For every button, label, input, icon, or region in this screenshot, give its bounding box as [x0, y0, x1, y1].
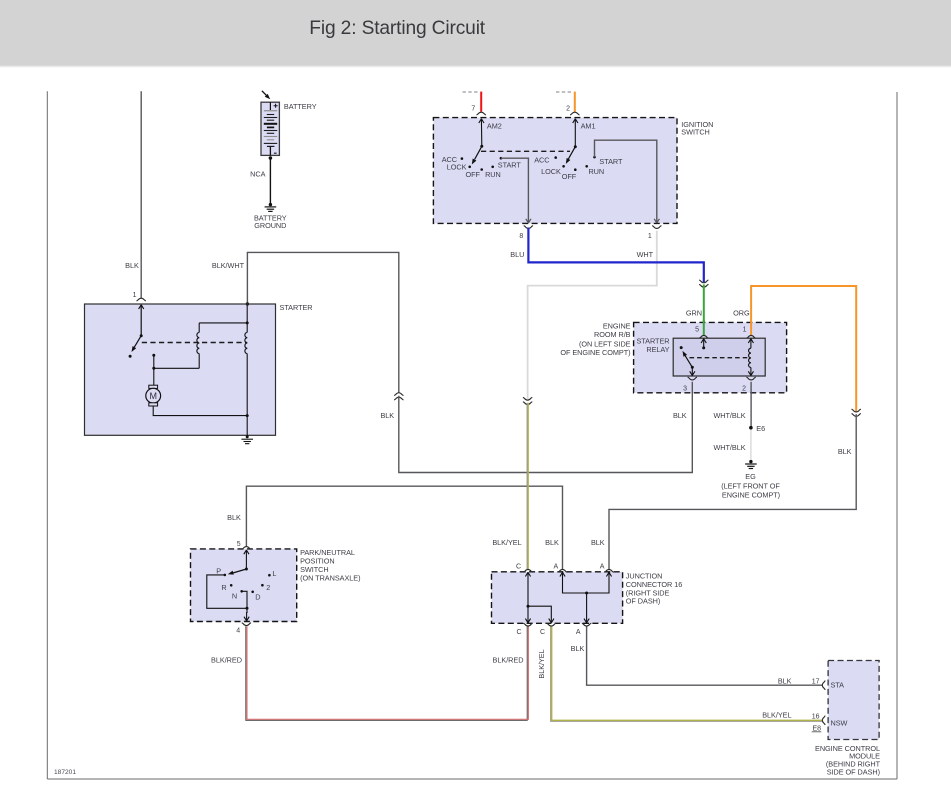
wire WHT/BLK E6 to EG ground — [750, 430, 752, 460]
svg-text:BLK/YEL: BLK/YEL — [492, 538, 521, 547]
relay fixed contact node — [680, 346, 683, 349]
node relay common — [691, 366, 694, 369]
node: starter case entry — [246, 302, 249, 305]
connector ignition pin 2 — [570, 112, 579, 115]
junction connector 16 box — [492, 572, 623, 624]
wire BLK relay pin3 to starter feed — [399, 382, 693, 473]
svg-text:2: 2 — [566, 106, 570, 113]
ECM box — [828, 661, 879, 740]
svg-text:1: 1 — [648, 233, 652, 240]
wire GRN lower segment into relay — [703, 320, 705, 335]
AM2 position contacts — [461, 157, 503, 171]
relay pin 5 terminal arrow — [701, 339, 706, 348]
svg-text:STARTER: STARTER — [280, 303, 313, 312]
svg-text:17: 17 — [812, 678, 820, 685]
svg-text:2: 2 — [266, 583, 270, 592]
svg-text:2: 2 — [742, 386, 746, 393]
connector ignition pin 8 — [524, 226, 533, 229]
relay mechanical link (dashed) — [690, 357, 750, 359]
relay pin 3 terminal arrow — [690, 367, 695, 375]
svg-text:LOCK: LOCK — [541, 167, 561, 176]
junction internal A bus — [560, 572, 612, 623]
connector junction bottom C1 — [523, 623, 532, 626]
svg-text:L: L — [272, 569, 276, 578]
EG ground — [745, 460, 757, 469]
wire motor to ground bus — [153, 406, 247, 416]
starter switch feed with arrow — [139, 305, 144, 336]
wire BLK/WHT (starter to inline connector) — [247, 252, 398, 392]
ECM label — [815, 744, 881, 777]
svg-text:BLK: BLK — [545, 538, 559, 547]
battery ground — [265, 203, 277, 211]
wire BLK right side down to junction connector — [609, 414, 856, 569]
svg-text:GRN: GRN — [686, 308, 702, 317]
starter switch contact node — [129, 355, 132, 358]
wire WHT/BLK relay pin 2 to E6 — [750, 382, 752, 427]
PNP switch blade to P — [227, 569, 246, 576]
engine room R/B label — [560, 321, 630, 357]
motor M — [146, 385, 161, 406]
svg-text:C: C — [516, 629, 521, 636]
starter hold-in coil on right vertical — [245, 304, 247, 436]
relay coil with terminal arrows — [748, 339, 753, 376]
svg-text:ROOM R/B: ROOM R/B — [594, 330, 631, 339]
wire NCA battery to ground — [269, 158, 271, 203]
AM1 contact arm with arrow — [573, 119, 578, 147]
AM2 contact arm with arrow — [479, 119, 484, 147]
starter ground — [241, 435, 253, 443]
inline connector ORG-BLK — [852, 409, 861, 416]
AM2 START wire to pin 8 — [501, 158, 531, 223]
AM1 START wire to pin 1 — [595, 140, 660, 223]
node junction C — [527, 605, 530, 608]
svg-text:START: START — [599, 157, 623, 166]
svg-text:ACC: ACC — [534, 156, 549, 165]
svg-text:ENGINE: ENGINE — [603, 321, 631, 330]
starter mechanical link (dashed) — [142, 342, 247, 344]
svg-text:AM1: AM1 — [581, 122, 596, 131]
park/neutral position switch box — [191, 549, 297, 622]
connector junction top C — [523, 569, 532, 572]
svg-text:C: C — [540, 629, 545, 636]
svg-text:NCA: NCA — [250, 170, 265, 179]
connector ECM STA pin — [822, 681, 825, 690]
svg-text:BLK: BLK — [380, 411, 394, 420]
starter switch blade — [130, 336, 142, 353]
connector junction top A1 — [558, 569, 567, 572]
junction internal C bus — [525, 572, 553, 623]
node: battery negative junction — [269, 156, 273, 160]
PNP pin 4 arrow — [244, 612, 249, 621]
wire BLK (battery side to starter pin 1) — [140, 91, 142, 298]
svg-text:Fig 2: Starting Circuit: Fig 2: Starting Circuit — [309, 18, 486, 39]
svg-text:START: START — [498, 160, 522, 169]
continuation dashes above pin 7 — [463, 91, 479, 93]
inline connector WHT-BLK/YEL — [523, 397, 532, 404]
node PNP output junction — [246, 607, 249, 610]
svg-text:M: M — [149, 391, 157, 401]
ignition mechanical link (dashed) — [481, 150, 570, 152]
PNP internal wiring N tap — [242, 591, 247, 608]
svg-text:STA: STA — [831, 680, 845, 689]
svg-text:8: 8 — [519, 233, 523, 240]
contact stub — [153, 355, 155, 368]
wire GRN to relay pin 5 — [703, 284, 705, 335]
svg-text:3: 3 — [683, 386, 687, 393]
svg-text:C: C — [516, 563, 521, 570]
starter pull-in coil — [197, 323, 199, 368]
wire BLU — [528, 228, 703, 283]
connector junction bottom C2 — [547, 623, 556, 626]
node E6 — [749, 426, 753, 430]
svg-text:WHT/BLK: WHT/BLK — [713, 443, 745, 452]
connector relay pin 1 — [746, 335, 755, 338]
PNP internal wiring P to pin 4 — [207, 575, 247, 613]
svg-text:OFF: OFF — [562, 172, 577, 181]
svg-text:5: 5 — [695, 327, 699, 334]
svg-text:BLU: BLU — [510, 250, 524, 259]
node PNP pivot — [245, 568, 248, 571]
AM2 switch blade to LOCK — [470, 146, 482, 165]
connector relay pin 3 — [688, 377, 697, 380]
svg-text:OFF: OFF — [465, 170, 480, 179]
node relay arm base — [702, 346, 705, 349]
svg-text:(ON LEFT SIDE: (ON LEFT SIDE — [579, 339, 631, 348]
PNP feed arrow into box — [244, 550, 249, 569]
PNP position contacts — [224, 574, 271, 593]
connector relay pin 5 — [699, 335, 708, 338]
svg-text:AM2: AM2 — [487, 122, 502, 131]
svg-text:RUN: RUN — [588, 167, 604, 176]
wire junction to motor — [153, 368, 155, 385]
svg-text:A: A — [576, 629, 581, 636]
continuation dashes above pin 2 — [556, 91, 573, 93]
inline connector BLK/WHT-BLK — [394, 393, 403, 400]
svg-text:OF ENGINE COMPT): OF ENGINE COMPT) — [560, 348, 630, 357]
AM2 position labels — [442, 155, 522, 179]
svg-text:ENGINE COMPT): ENGINE COMPT) — [722, 490, 780, 499]
svg-text:BLK: BLK — [591, 538, 605, 547]
connector relay pin 2 — [746, 377, 755, 380]
connector PNP pin 5 — [242, 547, 251, 550]
battery feed arrow — [262, 91, 272, 101]
svg-text:OF DASH): OF DASH) — [626, 597, 660, 606]
wire BLK/YEL junction to ECM NSW — [551, 627, 822, 722]
svg-text:RUN: RUN — [485, 170, 501, 179]
starter internal wire: top bus — [199, 322, 247, 324]
wire coil bottom to motor junction — [154, 367, 199, 369]
PNP position labels — [216, 566, 276, 601]
svg-text:N: N — [232, 591, 237, 600]
svg-text:E6: E6 — [756, 424, 765, 433]
svg-text:(ON TRANSAXLE): (ON TRANSAXLE) — [300, 573, 360, 582]
battery — [261, 102, 279, 155]
starter relay outer box (engine room R/B) — [634, 322, 787, 392]
node AM1 pivot — [574, 145, 577, 148]
svg-text:R: R — [221, 583, 226, 592]
svg-text:BLK/YEL: BLK/YEL — [762, 711, 791, 720]
header band — [0, 0, 951, 65]
AM1 position contacts — [554, 156, 595, 171]
svg-text:187201: 187201 — [54, 769, 76, 776]
node AM2 pivot — [480, 145, 483, 148]
svg-text:BLK/WHT: BLK/WHT — [212, 261, 245, 270]
svg-text:SWITCH: SWITCH — [681, 128, 709, 137]
svg-text:BLK: BLK — [125, 261, 139, 270]
svg-text:ORG: ORG — [733, 308, 750, 317]
svg-text:A: A — [554, 563, 559, 570]
connector ECM NSW pin — [822, 716, 825, 725]
svg-text:WHT/BLK: WHT/BLK — [713, 411, 745, 420]
svg-text:7: 7 — [471, 106, 475, 113]
E8 label — [812, 725, 822, 732]
AM1 position labels — [534, 156, 623, 182]
wire BLK PNP pin 5 to junction connector — [246, 486, 562, 569]
junction connector label — [626, 572, 682, 606]
svg-text:5: 5 — [237, 541, 241, 548]
svg-text:SIDE OF DASH): SIDE OF DASH) — [827, 768, 880, 777]
connector ignition pin 7 — [477, 112, 486, 115]
svg-text:BLK: BLK — [673, 411, 687, 420]
EG ground label — [721, 472, 780, 499]
PNP switch label — [300, 548, 360, 582]
wire ORG to ignition pin 2 — [574, 92, 576, 112]
svg-text:4: 4 — [236, 627, 240, 634]
svg-text:D: D — [255, 593, 260, 602]
svg-text:P: P — [216, 566, 221, 575]
connector at starter pin 1 — [137, 298, 146, 301]
svg-text:NSW: NSW — [831, 718, 848, 727]
svg-text:BLK/YEL: BLK/YEL — [537, 649, 546, 678]
svg-text:BLK/RED: BLK/RED — [211, 655, 242, 664]
ignition switch box — [433, 118, 677, 224]
svg-text:BLK/RED: BLK/RED — [493, 655, 524, 664]
connector junction top A2 — [604, 569, 613, 572]
svg-text:LOCK: LOCK — [447, 163, 467, 172]
starter relay body — [673, 338, 765, 376]
wire BLK/RED PNP pin 4 to junction connector — [246, 626, 529, 720]
wire BLK junction to ECM STA — [587, 627, 822, 686]
wire BLK/YEL inline connector to junction connector — [527, 403, 528, 570]
svg-text:1: 1 — [743, 327, 747, 334]
svg-text:STARTER: STARTER — [636, 336, 669, 345]
inline connector BLU-GRN — [699, 280, 708, 287]
svg-text:EG: EG — [745, 472, 756, 481]
svg-text:16: 16 — [812, 713, 820, 720]
svg-text:BATTERY: BATTERY — [284, 102, 317, 111]
svg-text:GROUND: GROUND — [254, 221, 286, 230]
node on right vertical — [246, 321, 249, 324]
diagram frame — [47, 91, 897, 779]
connector ignition pin 1 — [652, 226, 661, 229]
svg-text:BLK: BLK — [778, 677, 792, 686]
starter box — [85, 304, 276, 435]
svg-text:BLK: BLK — [571, 644, 585, 653]
wire WHT — [528, 231, 657, 400]
svg-text:A: A — [600, 563, 605, 570]
svg-text:BLK: BLK — [227, 513, 241, 522]
node junction A — [585, 592, 588, 595]
AM1 switch blade to LOCK — [564, 147, 575, 165]
connector junction bottom A — [582, 623, 591, 626]
wire ORG to relay pin 1 — [751, 286, 856, 412]
svg-text:WHT: WHT — [637, 250, 654, 259]
node: motor junction — [152, 367, 155, 370]
svg-text:1: 1 — [133, 292, 137, 299]
svg-text:BLK: BLK — [838, 447, 852, 456]
relay switch blade — [681, 350, 693, 367]
connector PNP pin 4 — [242, 623, 251, 626]
node: stub top — [152, 354, 155, 357]
wire RED to ignition pin 7 — [480, 92, 482, 112]
svg-text:E8: E8 — [812, 725, 821, 732]
starter switch pivot node — [140, 334, 143, 337]
svg-text:(LEFT FRONT OF: (LEFT FRONT OF — [721, 481, 780, 490]
svg-text:RELAY: RELAY — [646, 345, 669, 354]
node: motor return junction — [246, 414, 249, 417]
